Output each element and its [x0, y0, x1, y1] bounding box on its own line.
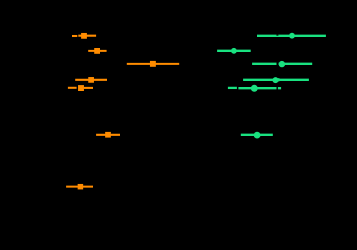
green errorbar row5 [228, 85, 281, 92]
orange errorbar row4 [75, 77, 107, 83]
orange errorbar row3 [127, 61, 179, 67]
orange errorbar row7 [66, 184, 93, 190]
green errorbar row6 [241, 132, 273, 139]
orange errorbar row2 [88, 48, 106, 54]
green errorbar row1 [257, 33, 326, 39]
orange errorbar row5 [68, 85, 93, 91]
green errorbar row3 [252, 61, 312, 67]
orange errorbar row6 [96, 132, 120, 138]
green errorbar row2 [217, 48, 251, 54]
green errorbar row4 [243, 77, 309, 83]
orange errorbar row1 [72, 33, 96, 39]
